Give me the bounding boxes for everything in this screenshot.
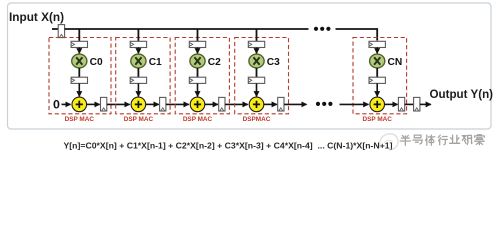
wire tap from input bus cell C2 bbox=[197, 29, 199, 42]
register RCNb (product register) bbox=[369, 77, 385, 83]
wire multiplier to register cell C2 bbox=[197, 68, 199, 78]
multiplier M4 (X) cell CN bbox=[370, 54, 385, 68]
adder A3 (+) cell C3 bbox=[249, 97, 264, 112]
adder A4 (+) cell CN bbox=[370, 97, 385, 112]
wire tap from input bus cell C3 bbox=[256, 29, 258, 42]
wire carry to next adder from cell C2 bbox=[225, 103, 248, 105]
svg-text:Input X(n): Input X(n) bbox=[9, 10, 64, 24]
register RC2c (accumulator pipeline register) bbox=[219, 97, 225, 111]
wire multiplier to register cell C1 bbox=[137, 68, 139, 78]
register RC2b (product register) bbox=[189, 77, 205, 83]
register RC0a (tap delay register) bbox=[71, 41, 87, 47]
register RC1b (product register) bbox=[130, 77, 146, 83]
register RC3b (product register) bbox=[248, 77, 264, 83]
wire carry to next adder from cell C0 bbox=[107, 103, 130, 105]
ellipsis dots on input bus bbox=[314, 27, 331, 31]
register RCNc (accumulator pipeline register) bbox=[398, 97, 404, 111]
svg-text:DSP MAC: DSP MAC bbox=[124, 116, 154, 123]
wire main input bus segment 1 bbox=[65, 28, 309, 30]
wire register to adder cell C0 bbox=[78, 83, 80, 96]
register RCNa (tap delay register) bbox=[369, 41, 385, 47]
watermark logo circle bbox=[380, 134, 398, 150]
wire tap from input bus cell C0 bbox=[78, 29, 80, 42]
register RC3c (accumulator pipeline register) bbox=[278, 97, 284, 111]
card border frame bbox=[8, 3, 492, 129]
wire input stub bbox=[52, 28, 58, 30]
wire adder to pipeline register cell C3 bbox=[264, 103, 277, 105]
svg-text:C2: C2 bbox=[208, 57, 221, 68]
wire between output pipeline registers bbox=[405, 103, 414, 105]
multiplier M3 (X) cell C3 bbox=[249, 54, 264, 68]
register RC1c (accumulator pipeline register) bbox=[160, 97, 166, 111]
wire register to adder cell C1 bbox=[137, 83, 139, 96]
wire register to adder cell C3 bbox=[256, 83, 258, 96]
wire register to multiplier cell C3 bbox=[256, 48, 258, 54]
multiplier M2 (X) cell C2 bbox=[190, 54, 205, 68]
wire ellipsis to last adder bbox=[340, 103, 369, 105]
wire final output arrow bbox=[420, 103, 431, 105]
adder A2 (+) cell C2 bbox=[190, 97, 205, 112]
register input R0 (input sample register) bbox=[58, 25, 64, 38]
register RC3a (tap delay register) bbox=[248, 41, 264, 47]
wire register to multiplier cell CN bbox=[376, 48, 378, 54]
svg-text:Output Y(n): Output Y(n) bbox=[430, 88, 494, 101]
wire tap from input bus cell C1 bbox=[137, 29, 139, 42]
wire adder to pipeline register cell C2 bbox=[205, 103, 218, 105]
wire register to adder cell C2 bbox=[197, 83, 199, 96]
wire carry from cell C3 toward ellipsis bbox=[284, 103, 306, 105]
wire main input bus segment 2 (bend into last tap) bbox=[336, 29, 378, 41]
svg-text:DSPMAC: DSPMAC bbox=[243, 116, 271, 123]
ellipsis dots on adder chain bbox=[316, 102, 333, 106]
wire adder to pipeline register cell CN bbox=[385, 103, 398, 105]
register RC1a (tap delay register) bbox=[130, 41, 146, 47]
register RC2a (tap delay register) bbox=[189, 41, 205, 47]
svg-text:C3: C3 bbox=[267, 57, 280, 68]
svg-text:CN: CN bbox=[388, 57, 403, 68]
wire 0 to first adder bbox=[62, 103, 71, 105]
register RC0b (product register) bbox=[71, 77, 87, 83]
wire adder to pipeline register cell C0 bbox=[87, 103, 100, 105]
svg-text:DSP MAC: DSP MAC bbox=[363, 116, 393, 123]
register output R_out (final output register) bbox=[414, 97, 420, 111]
watermark text (semiconductor industry watch) bbox=[400, 135, 484, 145]
wire carry to next adder from cell C1 bbox=[166, 103, 189, 105]
multiplier M1 (X) cell C1 bbox=[131, 54, 146, 68]
DSP MAC dashed box cell C1 bbox=[116, 38, 170, 114]
svg-text:0: 0 bbox=[53, 98, 60, 112]
adder A0 (+) cell C0 bbox=[72, 97, 87, 112]
svg-text:DSP MAC: DSP MAC bbox=[183, 116, 213, 123]
svg-text:Y[n]=C0*X[n] + C1*X[n-1] + C2*: Y[n]=C0*X[n] + C1*X[n-1] + C2*X[n-2] + C… bbox=[64, 140, 393, 150]
wire register to multiplier cell C0 bbox=[78, 48, 80, 54]
wire register to adder cell CN bbox=[376, 83, 378, 96]
wire adder to pipeline register cell C1 bbox=[146, 103, 159, 105]
wire multiplier to register cell C3 bbox=[256, 68, 258, 78]
wire multiplier to register cell CN bbox=[376, 68, 378, 78]
DSP MAC dashed box cell C2 bbox=[175, 38, 229, 114]
DSP MAC dashed box cell CN bbox=[353, 38, 407, 114]
wire register to multiplier cell C1 bbox=[137, 48, 139, 54]
multiplier M0 (X) cell C0 bbox=[72, 54, 87, 68]
svg-text:DSP MAC: DSP MAC bbox=[65, 116, 95, 123]
DSP MAC dashed box cell C0 bbox=[49, 38, 111, 114]
wire register to multiplier cell C2 bbox=[197, 48, 199, 54]
wire multiplier to register cell C0 bbox=[78, 68, 80, 78]
svg-text:C0: C0 bbox=[90, 57, 103, 68]
DSP MAC dashed box cell C3 bbox=[235, 38, 289, 114]
register RC0c (accumulator pipeline register) bbox=[101, 97, 107, 111]
svg-text:C1: C1 bbox=[149, 57, 162, 68]
adder A1 (+) cell C1 bbox=[131, 97, 146, 112]
